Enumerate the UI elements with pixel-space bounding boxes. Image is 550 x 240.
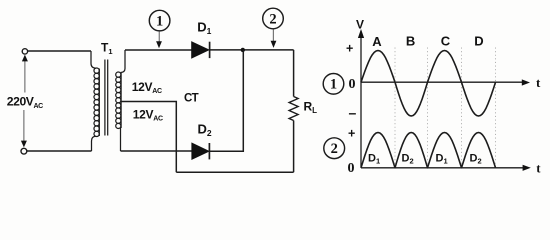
wire secondary bottom to D2 xyxy=(121,150,192,152)
svg-text:–: – xyxy=(349,105,357,121)
wire bottom return xyxy=(176,171,293,173)
diode D1 xyxy=(192,42,210,58)
wire primary top xyxy=(28,50,91,52)
svg-text:2: 2 xyxy=(269,11,276,27)
wire primary bottom xyxy=(27,150,92,152)
transformer T1 core xyxy=(105,60,108,136)
diode D2 xyxy=(192,143,210,159)
svg-text:1: 1 xyxy=(156,14,163,30)
svg-text:V: V xyxy=(356,18,364,32)
probe 2 circle xyxy=(263,8,284,48)
probe 1 circle xyxy=(149,10,170,48)
svg-text:A: A xyxy=(372,34,382,49)
resistor RL xyxy=(289,97,298,121)
svg-text:B: B xyxy=(406,34,415,49)
wire secondary top to D1 xyxy=(125,49,192,51)
transformer T1 secondary winding xyxy=(116,50,125,151)
svg-text:t: t xyxy=(536,75,541,90)
svg-text:0: 0 xyxy=(348,161,355,176)
220V AC source arrow down xyxy=(21,110,27,147)
wire D1 to corner xyxy=(210,49,294,51)
axis t upper xyxy=(361,79,530,85)
wire D2 to junction riser xyxy=(209,50,243,151)
220V AC source arrow up xyxy=(22,55,28,93)
wire right vertical bottom xyxy=(293,121,295,173)
transformer T1 primary winding xyxy=(91,51,99,151)
node junction dot xyxy=(241,48,245,52)
terminal bottom-left input xyxy=(21,148,27,154)
svg-text:+: + xyxy=(346,41,353,55)
waveform probe 2 circle xyxy=(324,138,345,159)
svg-text:C: C xyxy=(441,34,451,49)
svg-text:D: D xyxy=(474,34,483,49)
terminal top-left input xyxy=(22,49,27,54)
svg-text:t: t xyxy=(536,160,541,175)
svg-text:2: 2 xyxy=(331,141,338,157)
svg-text:CT: CT xyxy=(184,93,199,105)
sine wave input xyxy=(361,51,496,117)
axis V vertical xyxy=(358,29,364,168)
dotted divider lines xyxy=(395,48,496,168)
svg-text:0: 0 xyxy=(349,77,356,92)
wire right vertical top xyxy=(293,50,295,97)
svg-text:+: + xyxy=(348,127,355,141)
svg-text:1: 1 xyxy=(330,77,337,93)
axis t lower xyxy=(361,165,531,171)
rectified wave output xyxy=(361,133,496,168)
waveform probe 1 circle xyxy=(323,74,344,95)
wire CT tap xyxy=(121,102,176,173)
